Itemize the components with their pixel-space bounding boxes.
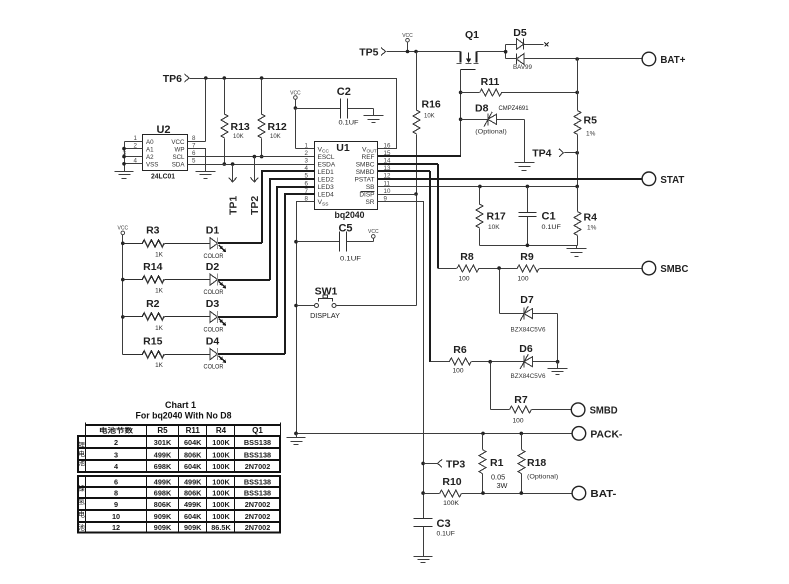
svg-text:R12: R12 [268,121,287,133]
wire D6 to ground [533,360,560,369]
terminal BAT+ [642,52,685,66]
wire VSS net [294,202,314,436]
svg-text:100K: 100K [212,500,230,509]
svg-text:100: 100 [517,276,528,283]
svg-text:2N7002: 2N7002 [245,500,271,509]
svg-text:电: 电 [78,449,85,458]
svg-text:SR: SR [365,199,374,206]
svg-text:ESDA: ESDA [318,162,336,169]
power VCC at C2 [290,90,301,109]
svg-text:604K: 604K [184,512,202,521]
svg-text:D1: D1 [206,225,220,237]
svg-text:VCC: VCC [171,139,185,146]
node TP4 [532,148,563,160]
svg-text:10K: 10K [488,224,500,231]
svg-text:VSS: VSS [146,161,158,168]
wire C5 line [297,241,340,243]
svg-text:R13: R13 [231,121,250,133]
svg-text:0.1UF: 0.1UF [339,120,359,127]
svg-text:1%: 1% [587,225,597,232]
svg-text:806K: 806K [184,450,202,459]
svg-text:2N7002: 2N7002 [245,512,271,521]
svg-text:604K: 604K [184,438,202,447]
node TP2 [249,157,261,216]
resistor R1 [479,434,508,494]
terminal SMBD [571,403,618,417]
svg-text:D3: D3 [206,298,220,310]
wire U2 VCC riser [188,79,206,142]
node TP3 [424,459,466,471]
power VCC at TP5 [402,33,413,53]
svg-text:电: 电 [78,510,85,519]
ground C2 [364,116,384,123]
capacitor C2 [337,86,359,127]
svg-text:R9: R9 [520,251,534,263]
svg-text:499K: 499K [184,500,202,509]
svg-text:SS: SS [322,201,328,207]
svg-text:1K: 1K [155,288,164,295]
wire LED4 net [285,194,315,354]
wire LED3 net [277,187,315,317]
wire SMBD column [430,171,450,362]
svg-text:SDA: SDA [172,161,186,168]
svg-text:R15: R15 [143,335,162,347]
diode D6 (zener) [511,343,546,380]
wire VCC to U1 pin1 [296,109,315,149]
svg-text:BAV99: BAV99 [513,65,533,71]
wire D3 cathode [218,316,277,318]
svg-text:WP: WP [175,146,185,153]
ground PACK- [287,438,306,445]
wire D7 branch [500,269,524,314]
resistor R5 [574,111,597,138]
U2 pin numbers right [192,135,196,164]
svg-text:6: 6 [114,478,118,487]
svg-text:BSS138: BSS138 [244,478,271,487]
wire SMBC column [438,164,457,269]
wire BAT+ line [525,57,643,61]
svg-text:镍: 镍 [78,484,85,493]
svg-text:D4: D4 [206,335,220,347]
ground C3 [414,557,433,563]
svg-text:LED3: LED3 [318,184,335,191]
svg-text:10: 10 [112,512,120,521]
svg-text:BSS138: BSS138 [244,489,271,498]
svg-text:499K: 499K [154,478,172,487]
wire pin10 DISP [378,194,417,196]
resistor R16 [413,99,441,135]
wire REF column [459,70,463,157]
svg-text:PACK-: PACK- [590,428,622,440]
diode D7 (zener) [511,294,546,334]
svg-text:8: 8 [192,135,196,142]
svg-text:For bq2040 With No D8: For bq2040 With No D8 [136,411,232,421]
svg-text:STAT: STAT [660,174,685,186]
svg-text:(Optional): (Optional) [475,129,506,136]
node TP6 [163,73,189,85]
wire pin14 SMBC [378,163,438,165]
svg-text:909K: 909K [154,523,172,532]
terminal PACK- [572,427,623,441]
svg-text:PSTAT: PSTAT [355,177,375,184]
svg-text:698K: 698K [154,462,172,471]
wire BAT- line [424,491,573,495]
LED D1 [165,225,227,260]
svg-text:1%: 1% [586,131,596,138]
svg-text:C1: C1 [542,211,556,223]
svg-text:R16: R16 [422,99,441,111]
capacitor C3 [414,518,455,538]
svg-text:D7: D7 [520,294,534,306]
svg-text:3: 3 [305,158,309,165]
svg-text:DISPLAY: DISPLAY [310,313,340,320]
svg-text:2: 2 [305,150,309,157]
IC U1 (bq2040) [315,142,378,221]
resistor R11 [461,76,580,96]
svg-text:D8: D8 [475,103,489,115]
svg-text:9: 9 [114,500,118,509]
svg-text:R17: R17 [487,211,506,223]
ground D8 [515,163,535,171]
LED D4 [165,335,227,370]
svg-text:BZX84C5V6: BZX84C5V6 [511,373,546,380]
resistor R6 [449,344,471,375]
svg-text:12: 12 [112,523,120,532]
capacitor C1 [519,187,561,246]
svg-text:BAT-: BAT- [590,488,617,500]
wire SDA line [188,162,315,166]
svg-text:A2: A2 [146,154,154,161]
svg-text:100K: 100K [212,478,230,487]
svg-text:R7: R7 [514,394,528,406]
svg-text:10: 10 [384,188,391,195]
svg-text:10K: 10K [233,134,244,140]
svg-text:SMBC: SMBC [660,263,688,275]
wire RC bottom line [480,244,578,249]
resistor R4 [574,187,597,246]
svg-text:1: 1 [305,142,309,149]
ground R4 [567,249,587,257]
svg-text:C2: C2 [337,86,351,98]
LED D2 [165,261,227,296]
svg-text:CMPZ4691: CMPZ4691 [499,105,529,112]
svg-text:LED1: LED1 [318,169,335,176]
wire SMBC row [479,266,643,270]
wire D4 cathode [218,353,285,355]
svg-text:100K: 100K [212,462,230,471]
resistor R14 [123,261,165,295]
svg-text:100K: 100K [212,438,230,447]
node TP1 [227,165,239,216]
diode D5 (BAV99) [504,27,544,71]
wire pin9 SR [378,202,425,519]
svg-text:301K: 301K [154,438,172,447]
wire C3 to ground [423,527,425,557]
svg-text:U1: U1 [336,142,350,154]
svg-text:100: 100 [458,276,469,283]
wire R7 to SMBD [532,409,572,411]
no-connect marker [545,43,549,47]
svg-text:R11: R11 [186,426,201,435]
svg-text:DISP: DISP [359,192,374,199]
svg-text:电池节数: 电池节数 [99,426,134,435]
svg-text:SB: SB [366,184,375,191]
svg-text:TP1: TP1 [227,196,239,215]
svg-text:4: 4 [114,462,119,471]
chart data rows [112,438,271,532]
resistor R7 [510,394,532,425]
svg-text:氢: 氢 [78,497,85,506]
svg-text:BZX84C5V6: BZX84C5V6 [511,327,546,334]
chart battery-type labels [78,440,85,531]
svg-text:BSS138: BSS138 [244,438,271,447]
svg-text:806K: 806K [184,489,202,498]
svg-text:TP2: TP2 [249,196,261,215]
svg-text:86.5K: 86.5K [211,523,231,532]
svg-text:2N7002: 2N7002 [245,462,271,471]
svg-text:COLOR: COLOR [204,253,224,260]
svg-text:909K: 909K [154,512,172,521]
svg-text:R4: R4 [584,212,598,224]
wire STAT line [378,178,642,180]
capacitor C5 [338,223,361,263]
svg-text:D6: D6 [519,343,533,355]
wire D6 row [472,360,524,364]
svg-text:COLOR: COLOR [204,289,224,296]
svg-text:8: 8 [114,489,118,498]
LED D3 [165,298,227,333]
svg-text:100K: 100K [212,450,230,459]
resistor R13 [221,79,250,141]
svg-text:SMBD: SMBD [590,405,618,417]
wire PACK- line [294,432,572,438]
svg-text:24LC01: 24LC01 [151,172,175,181]
svg-text:R2: R2 [146,298,160,310]
svg-text:698K: 698K [154,489,172,498]
svg-text:R10: R10 [442,476,461,488]
svg-text:SCL: SCL [172,154,185,161]
svg-text:D2: D2 [206,261,220,273]
IC U2 (24LC01) [143,124,188,181]
svg-text:U2: U2 [156,124,170,136]
svg-text:R8: R8 [460,251,474,263]
wire R13 to SDA [223,139,227,166]
svg-text:806K: 806K [154,500,172,509]
svg-text:(Optional): (Optional) [527,474,558,481]
wire Q1 drain to D5 [477,51,506,53]
svg-text:LED4: LED4 [318,192,335,199]
wire SCL line [188,155,315,159]
wire VCC junction R16 [414,50,418,111]
svg-text:LED2: LED2 [318,177,335,184]
svg-text:16: 16 [384,142,391,149]
wire D2 cathode [218,279,270,281]
svg-text:10K: 10K [270,134,281,140]
svg-text:5: 5 [192,157,196,164]
svg-text:R14: R14 [143,261,162,273]
power VCC at LED bus [118,226,129,244]
resistor R3 [123,225,165,259]
chart table grid [78,423,281,533]
transistor Q1 [457,29,480,70]
svg-text:R1: R1 [490,457,504,469]
svg-text:A0: A0 [146,139,154,146]
wire SB line [378,185,580,189]
wire TP4 [565,151,580,155]
U1 pin numbers right [384,142,391,202]
svg-text:REF: REF [362,154,375,161]
wire R5 column top [577,59,579,111]
svg-text:1K: 1K [155,325,164,332]
svg-text:0.1UF: 0.1UF [542,224,561,231]
wire LED2 net [270,179,315,280]
svg-text:TP5: TP5 [359,46,378,58]
wire C2 to ground [348,109,374,116]
resistor R9 [517,251,539,283]
svg-text:bq2040: bq2040 [335,210,365,220]
svg-text:TP6: TP6 [163,73,182,85]
ground U2 WP [196,172,216,179]
wire LED VCC bus [121,242,125,355]
wire VCC to C2 [296,108,341,110]
svg-text:2: 2 [114,438,118,447]
ground U2 bus [115,172,134,179]
resistor R8 [457,251,479,283]
resistor R15 [123,335,165,369]
svg-text:锂: 锂 [78,440,85,449]
svg-text:R3: R3 [146,225,160,237]
wire C5 to VCC [347,241,374,243]
wire D7 to ground column [533,314,558,362]
svg-text:3W: 3W [497,481,508,490]
switch SW1 (DISPLAY) [297,286,417,321]
svg-text:池: 池 [78,458,85,467]
wire LED1 net [262,171,315,243]
U1 pin numbers left [305,142,309,202]
svg-text:R18: R18 [527,457,546,469]
wire U2 address bus [122,142,142,172]
svg-text:ESCL: ESCL [318,154,335,161]
svg-text:池: 池 [78,523,85,532]
resistor R2 [123,298,165,332]
wire pin15 REF [378,155,461,157]
svg-text:15: 15 [384,150,391,157]
svg-text:Q1: Q1 [465,29,479,41]
wire TP5 to Q1 [387,51,461,53]
svg-text:100K: 100K [443,500,459,507]
svg-text:3: 3 [114,450,118,459]
svg-text:BAT+: BAT+ [660,54,685,66]
svg-text:R5: R5 [584,115,598,127]
svg-text:0.1UF: 0.1UF [437,531,455,538]
U2 pin numbers left [123,135,138,164]
ground D6/D7 [548,369,568,375]
svg-text:BSS138: BSS138 [244,450,271,459]
svg-text:COLOR: COLOR [204,364,224,371]
svg-text:SMBD: SMBD [356,169,375,176]
svg-text:D5: D5 [513,27,527,39]
wire R5 column bottom [577,135,579,187]
svg-text:C5: C5 [338,223,352,235]
terminal SMBC [642,261,689,275]
svg-text:100: 100 [452,368,463,375]
chart header row [99,426,263,436]
svg-text:909K: 909K [184,523,202,532]
wire U2 WP to ground [188,149,206,172]
wire pin13 SMBD [378,170,430,172]
chart title [136,400,232,421]
resistor R12 [258,79,287,141]
svg-text:C3: C3 [437,518,451,530]
svg-text:R5: R5 [157,426,168,435]
resistor R18 (optional) [518,434,558,494]
wire R16 to DISP/SW1 column [414,135,418,306]
resistor R10 [440,476,462,507]
svg-text:2N7002: 2N7002 [245,523,271,532]
wire D1 cathode [218,242,262,244]
resistor R17 [476,187,506,246]
terminal BAT- [572,486,617,500]
svg-text:A1: A1 [146,146,154,153]
node TP5 [359,46,385,58]
wire R7 branch [491,362,510,410]
wire R12 to SCL [260,139,264,159]
svg-text:0.1UF: 0.1UF [340,256,361,263]
diode D8 (zener, optional) [461,103,529,163]
svg-text:100K: 100K [212,489,230,498]
svg-text:SMBC: SMBC [356,162,375,169]
wire TP6 to VOUT [190,76,397,148]
svg-text:1K: 1K [155,362,164,369]
svg-text:499K: 499K [184,478,202,487]
svg-text:Q1: Q1 [252,426,263,435]
svg-text:R11: R11 [481,76,500,88]
svg-text:604K: 604K [184,462,202,471]
svg-text:100: 100 [512,418,523,425]
svg-text:1K: 1K [155,251,164,258]
svg-text:TP3: TP3 [446,459,465,471]
power VCC at C5 [368,229,379,241]
svg-text:SW1: SW1 [315,286,338,298]
svg-text:R4: R4 [216,426,227,435]
svg-text:Chart 1: Chart 1 [165,400,196,410]
svg-text:R6: R6 [453,344,467,356]
svg-text:10K: 10K [424,114,435,120]
svg-text:499K: 499K [154,450,172,459]
svg-text:COLOR: COLOR [204,327,224,334]
svg-text:TP4: TP4 [532,148,551,160]
terminal STAT [642,172,685,186]
svg-text:100K: 100K [212,512,230,521]
